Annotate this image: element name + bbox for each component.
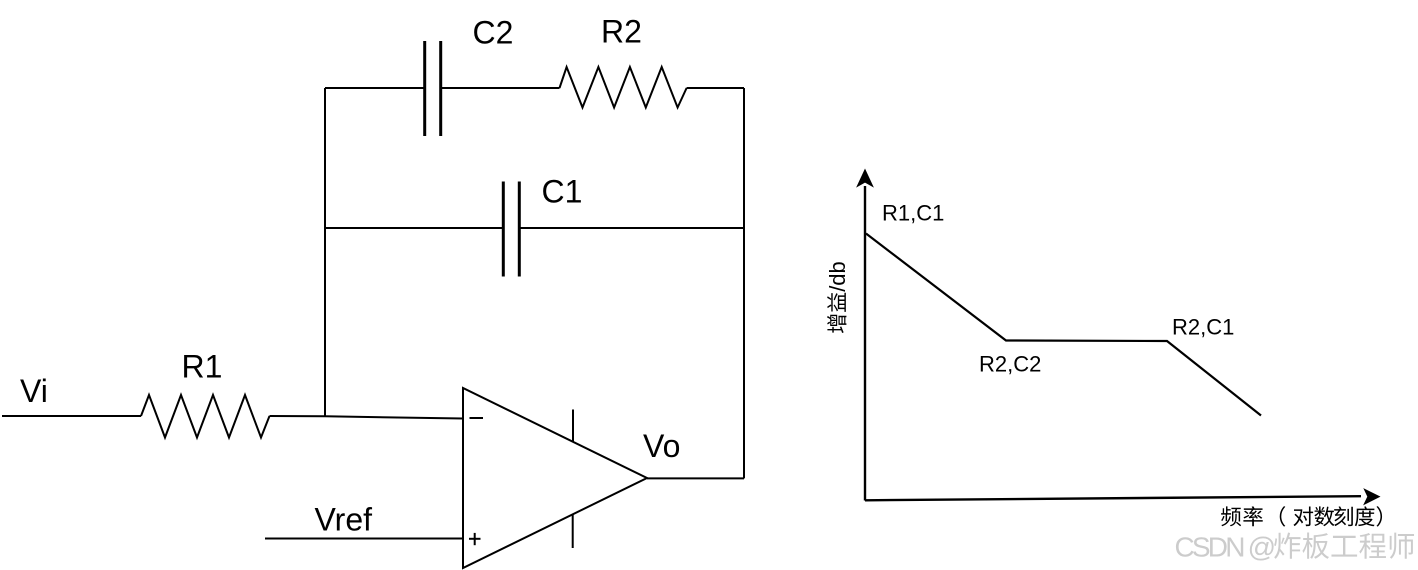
svg-text:Vo: Vo bbox=[643, 428, 680, 464]
wire: R1 to inverting input (node junction at x=325) bbox=[270, 416, 464, 419]
svg-text:Vref: Vref bbox=[315, 502, 373, 538]
svg-text:/db: /db bbox=[825, 261, 850, 292]
svg-text:C2: C2 bbox=[473, 15, 514, 51]
svg-text:R2,C1: R2,C1 bbox=[1172, 315, 1234, 340]
wire: output Vo to right vertical bbox=[647, 477, 744, 479]
wire: right feedback vertical bbox=[743, 88, 745, 478]
op-amp U1 plus sign bbox=[469, 533, 481, 545]
bode plot y-axis arrowhead bbox=[856, 169, 874, 188]
wire: C2 to R2 bbox=[442, 87, 560, 89]
resistor R2 bbox=[560, 67, 687, 108]
op-amp U1 negative supply tick bbox=[572, 515, 574, 549]
wire: Vref input bbox=[265, 538, 463, 540]
x-axis label 频率（对数刻度） bbox=[1221, 506, 1382, 526]
wire: top feedback horizontal (C2/R2 branch) bbox=[325, 87, 424, 89]
svg-text:C1: C1 bbox=[542, 174, 583, 210]
svg-text:R2: R2 bbox=[601, 14, 642, 50]
wire: R2 to right vertical bbox=[687, 87, 744, 89]
svg-text:R1,C1: R1,C1 bbox=[882, 201, 944, 226]
bode plot gain curve bbox=[866, 234, 1261, 416]
op-amp U1 triangle bbox=[463, 388, 647, 568]
capacitor C1 bbox=[503, 182, 519, 277]
svg-text:R2,C2: R2,C2 bbox=[979, 352, 1041, 377]
bode plot y-axis bbox=[864, 186, 866, 501]
svg-text:R1: R1 bbox=[182, 349, 223, 385]
wire: left feedback vertical bbox=[324, 88, 326, 417]
bode plot x-axis bbox=[865, 496, 1361, 500]
wire: Vi input bbox=[2, 415, 141, 417]
svg-text:CSDN @: CSDN @ bbox=[1175, 532, 1274, 563]
watermark CSDN @炸板工程师 bbox=[1175, 532, 1415, 563]
op-amp U1 positive supply tick bbox=[572, 410, 574, 442]
svg-text:Vi: Vi bbox=[20, 373, 48, 409]
capacitor C2 bbox=[425, 41, 441, 136]
y-axis label 增益/db bbox=[825, 261, 850, 333]
resistor R1 bbox=[141, 395, 270, 438]
op-amp U1 minus sign bbox=[470, 417, 484, 419]
wire: middle branch right segment bbox=[521, 227, 745, 229]
bode plot x-axis arrowhead bbox=[1363, 488, 1380, 505]
wire: middle branch left segment bbox=[325, 227, 502, 229]
